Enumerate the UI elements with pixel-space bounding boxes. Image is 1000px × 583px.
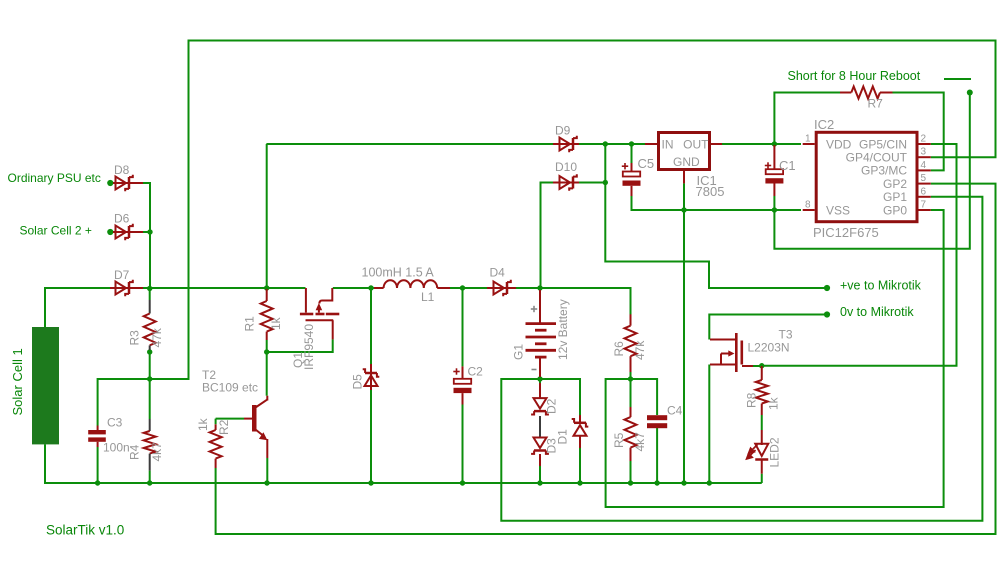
svg-text:D2: D2: [545, 398, 559, 414]
voltage regulator IC1 7805: [659, 133, 710, 170]
svg-text:LED2: LED2: [768, 437, 782, 467]
resistor R3 47k: [149, 300, 151, 314]
capacitor C1 (polarized): [773, 145, 775, 169]
svg-text:PIC12F675: PIC12F675: [813, 225, 879, 240]
junction L1 out / C2: [460, 285, 465, 290]
pin 3 lead: [919, 156, 931, 158]
junction R6 / R5 sense node: [628, 376, 633, 381]
node: +ve to Mikrotik terminal: [824, 285, 830, 291]
capacitor C4: [647, 415, 667, 428]
wire: D2 top lead: [539, 379, 541, 385]
wire: +ve to Mikrotik net from D9/D10 junction: [605, 144, 827, 288]
junction D10 cathode: [603, 180, 608, 185]
wire: +12 line to D9 and 7805 IN (y=144): [266, 143, 646, 145]
svg-text:100mH 1.5 A: 100mH 1.5 A: [362, 266, 435, 280]
wire: 0v to Mikrotik line to T3 drain: [709, 315, 827, 340]
wire: R5 top lead: [630, 379, 632, 407]
svg-text:GP0: GP0: [883, 203, 907, 217]
diode D5 (flyback): [370, 364, 372, 390]
wire: GP0 (pin 7) around bottom to R5/C4 sense node: [606, 210, 944, 507]
svg-text:L1: L1: [421, 290, 435, 304]
resistor R8 1k: [761, 366, 763, 380]
svg-text:L2203N: L2203N: [748, 341, 790, 355]
junction 7805 GND: [681, 207, 686, 212]
pin lead GND (IC1): [683, 171, 685, 183]
junction rail / D7 / R3: [147, 286, 152, 291]
svg-text:R3: R3: [128, 330, 142, 346]
svg-text:7: 7: [921, 200, 927, 211]
wire: LED2 cathode to ground rail: [761, 474, 763, 483]
resistor R1 1k: [266, 289, 268, 301]
svg-text:1k: 1k: [269, 316, 283, 330]
wire: C2 bottom to ground rail: [462, 405, 464, 484]
junction R3 bottom: [147, 349, 152, 354]
svg-text:7805: 7805: [696, 184, 725, 199]
wire: D5 bottom to ground rail: [370, 390, 372, 483]
wire: C5 bottom to GND line of 7805/IC2 VSS: [632, 196, 802, 210]
wire: solar cell + up to main +12 rail through D7 to Q1 source: [45, 288, 306, 327]
wire: Q1 gate node to gate lead (from R1/T2 junction): [267, 339, 333, 352]
pin 7 lead: [919, 209, 931, 211]
transistor Q1 IRF9540 (P-MOSFET): [300, 288, 339, 339]
diode D3: [531, 438, 549, 454]
junction ground rail C3: [95, 480, 100, 485]
capacitor C5 (polarized): [631, 163, 633, 172]
svg-text:G1: G1: [512, 344, 526, 360]
svg-text:D1: D1: [556, 429, 570, 445]
microcontroller IC2 PIC12F675: [816, 132, 917, 221]
svg-text:1k: 1k: [767, 396, 781, 410]
pin lead between D2 and D3: [539, 416, 541, 437]
junction gate node (R1 bottom / T2 collector): [264, 349, 269, 354]
wire: T2 base wire from R2: [216, 419, 244, 425]
svg-text:Ordinary PSU etc: Ordinary PSU etc: [8, 171, 101, 185]
battery G1 12v: [526, 290, 557, 377]
svg-text:GP3/MC: GP3/MC: [861, 164, 907, 178]
svg-text:R8: R8: [745, 392, 759, 408]
svg-text:0v to Mikrotik: 0v to Mikrotik: [840, 305, 914, 319]
transistor T2 BC109 (NPN): [244, 396, 268, 458]
junction ground rail D3: [537, 480, 542, 485]
junction ground rail C4: [654, 480, 659, 485]
pin lead OUT (IC1): [711, 143, 722, 145]
junction VDD / C1 top / R7: [772, 141, 777, 146]
svg-text:4k7: 4k7: [150, 442, 164, 462]
wire: divider node to C3 and up over the top to IC2 GP4 (pin 3): [98, 41, 996, 426]
diode D4: [487, 287, 516, 289]
wire: R6 bottom to sense node: [630, 372, 632, 379]
node: reboot jumper point: [967, 90, 973, 96]
diode D7: [110, 287, 143, 289]
svg-text:Solar Cell 2 +: Solar Cell 2 +: [20, 224, 92, 238]
junction ground rail C2: [460, 480, 465, 485]
svg-text:IN: IN: [662, 137, 674, 151]
svg-text:C3: C3: [107, 416, 123, 430]
solar cell SC1 (Solar Cell 1): [32, 327, 59, 444]
node: Solar Cell 2 terminal: [107, 229, 113, 235]
wire: VDD node up to R7 and across to GP3/MC (pin 4): [774, 93, 943, 171]
pin 1 lead (VDD): [803, 143, 815, 145]
inductor L1 100mH: [374, 287, 384, 289]
resistor R6 47k: [630, 314, 632, 325]
junction battery - / D2: [537, 376, 542, 381]
svg-text:100n: 100n: [103, 441, 130, 455]
wire: ground rail: [45, 444, 762, 483]
diode D10: [553, 182, 579, 184]
wire: T2 collector from gate node junction: [266, 352, 268, 396]
resistor R7 (reboot): [840, 92, 851, 94]
svg-text:D5: D5: [351, 374, 365, 390]
svg-text:GP5/CIN: GP5/CIN: [859, 137, 907, 151]
svg-text:R1: R1: [243, 316, 257, 332]
wire: battery minus box to D2 and D1, and over to IC2 GP1 (pin 6): [501, 197, 982, 521]
svg-text:VDD: VDD: [826, 137, 852, 151]
svg-text:OUT: OUT: [683, 137, 709, 151]
svg-text:6: 6: [921, 186, 927, 197]
svg-text:T3: T3: [779, 328, 793, 342]
wire: D3 bottom to ground rail: [539, 466, 541, 483]
wire: main rail from Q1 drain through L1, D4 to R6 top: [333, 288, 631, 315]
node: 0v to Mikrotik terminal: [824, 311, 830, 317]
svg-text:D10: D10: [555, 160, 577, 174]
wire: T2 emitter to ground rail: [266, 458, 268, 483]
svg-text:Short for 8 Hour Reboot: Short for 8 Hour Reboot: [788, 69, 921, 83]
wire: D1 bottom to ground rail: [579, 448, 581, 483]
svg-text:C1: C1: [779, 158, 796, 173]
svg-text:R6: R6: [612, 341, 626, 357]
svg-text:C5: C5: [638, 156, 655, 171]
wire: D10 line from battery node up and right to +12 line: [541, 183, 606, 289]
wire: Solar Cell 2 + input to D6: [110, 231, 150, 233]
diode D2: [539, 383, 541, 398]
wire: T3 gate to R8 node: [753, 365, 762, 367]
svg-text:D7: D7: [114, 268, 130, 282]
svg-text:1k: 1k: [196, 417, 210, 431]
svg-text:IC2: IC2: [814, 117, 834, 132]
diode D6: [113, 231, 143, 233]
diode D1: [579, 415, 581, 422]
transistor T3 L2203N (N-MOSFET): [710, 340, 753, 367]
wire: reboot jumper stub: [944, 78, 971, 80]
junction D9 out / D10 out / +ve riser: [603, 141, 608, 146]
junction rail / R1 / +12 riser: [264, 285, 269, 290]
svg-text:R7: R7: [868, 97, 884, 111]
LED2 light arrows: [747, 445, 758, 459]
svg-text:Solar Cell 1: Solar Cell 1: [10, 348, 25, 415]
svg-text:R2: R2: [217, 419, 231, 435]
pin 4 lead: [919, 169, 931, 171]
svg-text:47k: 47k: [633, 340, 647, 360]
wire: R5 bottom to ground rail: [630, 461, 632, 483]
svg-text:GP2: GP2: [883, 177, 907, 191]
pin lead IN (IC1): [645, 143, 657, 145]
pin 6 lead: [919, 196, 931, 198]
svg-text:IRF9540: IRF9540: [302, 324, 316, 370]
capacitor C3 100n: [97, 426, 99, 431]
svg-text:SolarTik v1.0: SolarTik v1.0: [46, 523, 124, 538]
svg-text:47k: 47k: [150, 327, 164, 347]
LED2: [761, 430, 763, 445]
junction switch node / D5: [368, 285, 373, 290]
pin 2 lead: [919, 143, 931, 145]
svg-text:C2: C2: [468, 365, 484, 379]
svg-text:4: 4: [921, 160, 927, 171]
resistor R4 4k7: [149, 419, 151, 431]
junction D6/D8 column: [147, 229, 152, 234]
diode D8: [113, 182, 143, 184]
svg-text:2: 2: [921, 134, 927, 145]
svg-text:4k7: 4k7: [633, 432, 647, 452]
wire: C2 top lead from output node: [462, 288, 464, 366]
wire: R4 bottom to ground rail: [149, 471, 151, 483]
svg-text:R5: R5: [612, 432, 626, 448]
junction T3 gate / R8: [759, 363, 764, 368]
svg-text:5: 5: [921, 173, 927, 184]
wire: C1 bottom lead to VSS line: [773, 196, 775, 210]
svg-text:D9: D9: [555, 124, 571, 138]
junction ground rail T3 source: [707, 480, 712, 485]
junction 7805 IN / C5: [629, 141, 634, 146]
junction ground rail 7805 GND riser: [681, 480, 686, 485]
svg-text:VSS: VSS: [826, 203, 850, 217]
pin 5 lead: [919, 183, 931, 185]
junction ground rail R5: [628, 480, 633, 485]
svg-text:12v Battery: 12v Battery: [556, 299, 570, 360]
wire: VSS/GND net loop to reboot jumper point: [774, 93, 969, 249]
wire: riser from +12 line down to Q1 gate node junction: [266, 144, 268, 289]
resistor R5 4k7: [630, 407, 632, 417]
pin 8 lead (VSS): [803, 209, 815, 211]
diode D9: [553, 143, 579, 145]
junction ground rail D1: [577, 480, 582, 485]
wire: 7805 GND lead down to ground rail: [683, 183, 685, 483]
wire: R8 bottom to LED2 anode: [761, 415, 763, 430]
wire: R3 top lead from rail: [149, 289, 151, 300]
svg-text:BC109 etc: BC109 etc: [202, 381, 258, 395]
junction ground rail R4: [147, 480, 152, 485]
wire: C4 bottom to ground rail: [656, 428, 658, 484]
svg-text:D6: D6: [114, 212, 130, 226]
wire: C5 top lead from 7805 IN node: [631, 144, 633, 163]
wire: 7805 OUT to IC2 VDD pin 1: [711, 143, 801, 145]
junction divider node R3/R4/C3: [147, 376, 152, 381]
wire: R3 bottom to junction: [149, 350, 151, 419]
capacitor C2 (polarized): [462, 366, 464, 378]
wire: GP2 (pin 5) around the bottom to R2 / T2 base: [216, 184, 996, 534]
svg-text:GND: GND: [673, 155, 700, 169]
junction ground rail D5: [368, 480, 373, 485]
wire: GP5 (pin 2) to T3 gate / R8 node: [762, 144, 957, 366]
svg-text:1: 1: [805, 134, 811, 145]
junction ground rail T2 emitter: [264, 480, 269, 485]
junction D4 out / battery +: [537, 285, 542, 290]
svg-text:C4: C4: [667, 404, 683, 418]
junction VSS / C1 bottom: [772, 207, 777, 212]
svg-text:8: 8: [805, 200, 811, 211]
svg-text:GP4/COUT: GP4/COUT: [846, 151, 908, 165]
node: Ordinary PSU terminal: [107, 180, 113, 186]
resistor R2 1k: [215, 424, 217, 430]
svg-text:D4: D4: [490, 266, 506, 280]
wire: battery minus box right branch to D1: [540, 379, 580, 415]
wire: Ordinary PSU input through D8 down to D6/D7 column: [110, 183, 150, 288]
wire: T3 source down to ground rail: [708, 365, 710, 484]
svg-text:3: 3: [921, 147, 927, 158]
svg-text:+ve to Mikrotik: +ve to Mikrotik: [840, 279, 922, 293]
svg-text:D8: D8: [114, 163, 130, 177]
wire: D5 top lead from switch node: [370, 288, 372, 364]
svg-text:GP1: GP1: [883, 190, 907, 204]
